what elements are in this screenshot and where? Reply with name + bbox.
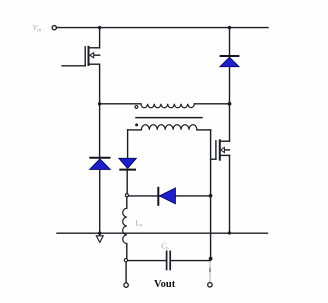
capacitor Co plates bbox=[167, 251, 171, 269]
svg-text:Co: Co bbox=[161, 242, 169, 251]
winding N1 bbox=[141, 104, 195, 108]
wire D1 anode down to node bbox=[229, 67, 231, 104]
wire winding N1 left lead bbox=[100, 103, 141, 105]
wire winding N2 left lead bbox=[128, 129, 142, 131]
wire Q1 drain from top rail bbox=[99, 28, 101, 48]
wire Lo spine top bbox=[126, 197, 128, 209]
node Co right junction bbox=[209, 257, 213, 261]
wire right rail top to diode D1 bbox=[229, 28, 231, 56]
wire winding N2 right lead bbox=[197, 129, 211, 131]
wire output right drop (faint) bbox=[209, 262, 211, 282]
node top-right junction bbox=[228, 26, 231, 29]
wire output to capacitor Co bbox=[128, 260, 167, 262]
wire top rail bbox=[57, 27, 268, 29]
polarity dot winding N2 bbox=[135, 123, 138, 126]
terminal Vin bbox=[52, 26, 56, 30]
wire capacitor Co to right node bbox=[171, 260, 211, 262]
wire Q1 source down to diode D2 bbox=[99, 64, 101, 157]
node N1 left junction bbox=[98, 102, 101, 105]
node bottom-right corner junction bbox=[228, 231, 231, 234]
wire winding N1 right lead bbox=[194, 103, 229, 105]
ground arrow below bottom rail bbox=[99, 233, 101, 235]
diode D4 bbox=[158, 187, 175, 206]
node bottom-left junction bbox=[98, 232, 101, 235]
svg-text:Vin: Vin bbox=[33, 23, 42, 33]
inductor Lo bbox=[123, 208, 127, 243]
wire gate-drive vertical (N2 right drop) bbox=[210, 130, 212, 259]
wire Lo spine bottom bbox=[126, 244, 128, 259]
node top-left junction bbox=[98, 26, 101, 29]
polarity dot winding N1 bbox=[135, 106, 138, 109]
svg-text:Vout: Vout bbox=[154, 279, 176, 290]
node Lo top terminal bbox=[125, 194, 128, 197]
diode D3 bbox=[119, 158, 136, 169]
terminal output plus bbox=[208, 283, 212, 287]
wire N2 left drop to diode D3 bbox=[127, 130, 129, 158]
wire node down to Q2 drain bbox=[229, 104, 231, 141]
wire D2 anode down to bottom rail bbox=[99, 169, 101, 233]
terminal output minus bbox=[124, 283, 128, 287]
svg-text:Lo: Lo bbox=[135, 219, 142, 228]
node D4 anode junction bbox=[209, 194, 213, 198]
node N1 right junction bbox=[228, 102, 232, 106]
node Lo bottom terminal bbox=[124, 259, 127, 262]
wire output left drop bbox=[125, 262, 127, 283]
wire Lo top node to D4 cathode bbox=[128, 195, 210, 197]
wire D3 cathode down to Lo top node bbox=[126, 170, 128, 194]
transistor Q2 bbox=[211, 140, 230, 159]
winding N2 bbox=[141, 125, 196, 130]
wire bottom rail bbox=[57, 232, 268, 234]
wire Q2 source down to bottom rail bbox=[229, 155, 231, 233]
transistor Q1 bbox=[62, 47, 100, 66]
diode D1 bbox=[220, 56, 240, 67]
diode D2 bbox=[89, 158, 110, 170]
core bar bbox=[136, 117, 202, 119]
